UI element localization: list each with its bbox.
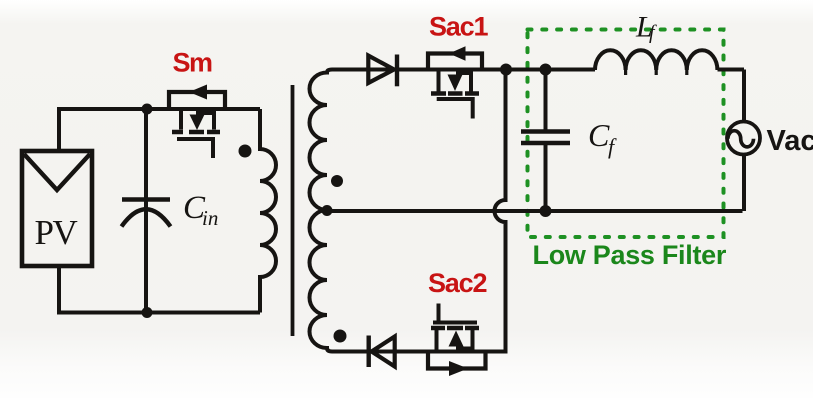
svg-text:Sac1: Sac1 <box>429 12 488 42</box>
svg-text:PV: PV <box>35 213 78 252</box>
svg-text:C: C <box>588 117 610 153</box>
svg-text:f: f <box>608 134 617 159</box>
svg-text:Sac2: Sac2 <box>428 268 486 298</box>
svg-text:Low Pass Filter: Low Pass Filter <box>533 240 727 270</box>
svg-text:Vac: Vac <box>767 125 813 157</box>
svg-text:in: in <box>202 206 218 230</box>
svg-text:f: f <box>649 22 657 44</box>
svg-text:Sm: Sm <box>173 48 213 78</box>
